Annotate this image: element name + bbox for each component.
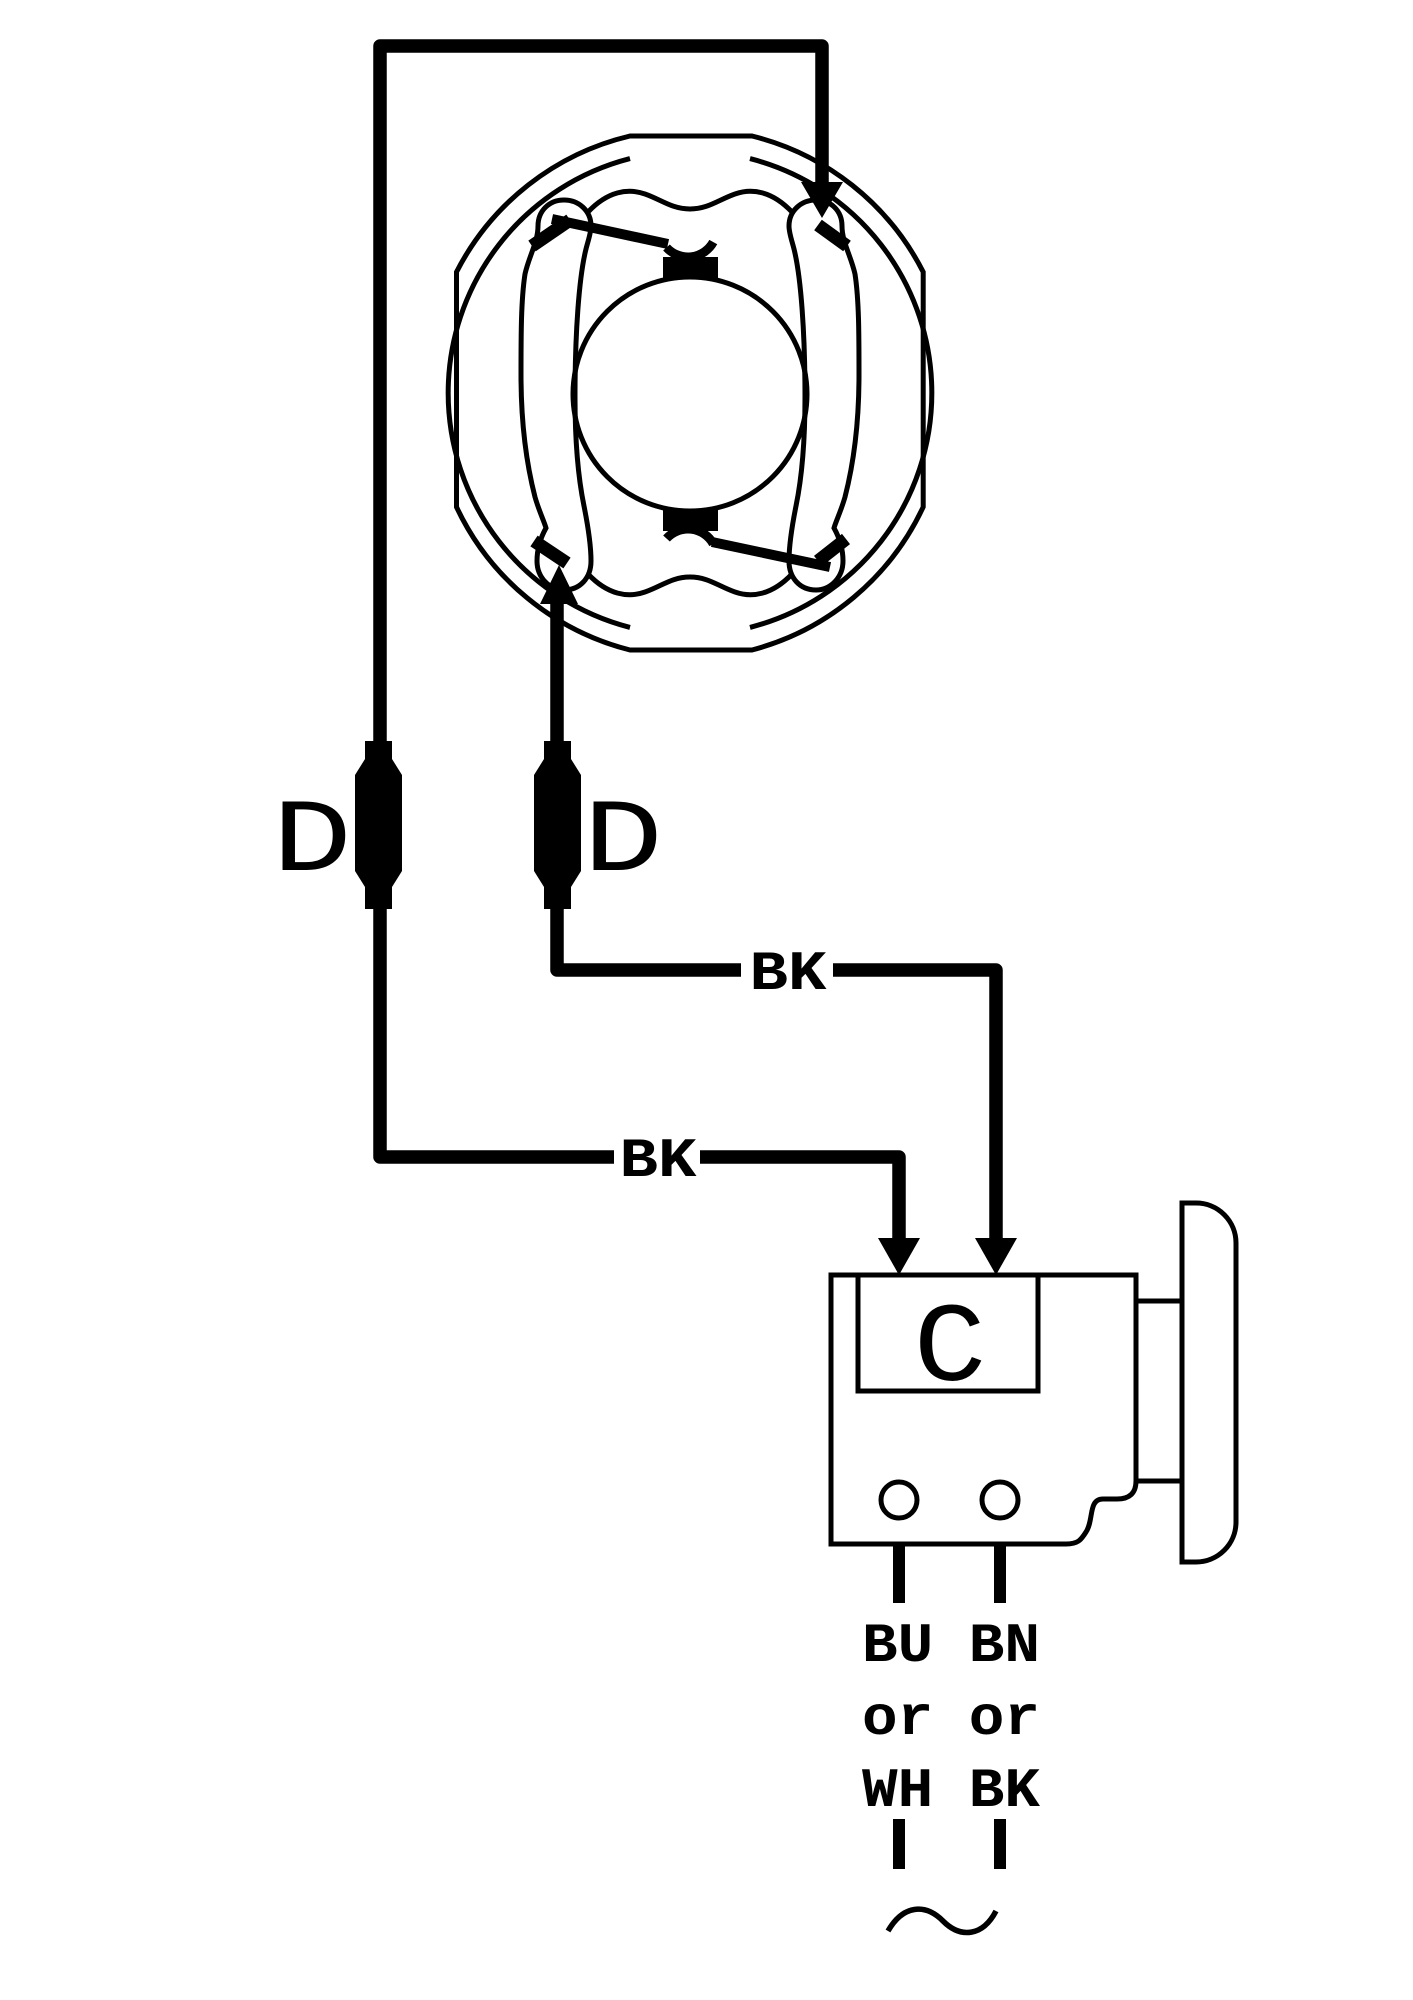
arrow into C unit (left) [878,1238,920,1275]
C unit: end cap boot [1182,1203,1236,1562]
motor: terminal slash bottom-left [534,541,567,563]
motor: brush spring top [667,242,714,257]
motor: brush spring bottom [667,529,714,544]
svg-text:D: D [583,784,663,902]
wire dash left [893,1819,905,1869]
suppressor D2 (right, in-line capsule) [534,741,581,909]
motor: terminal slash top-right [818,225,847,246]
motor: brush holder top [663,257,718,278]
motor: pole face wave top [588,191,792,212]
C unit: neck top line [1136,1299,1182,1304]
AC tilde symbol [888,1909,996,1932]
wire stub below C unit right [994,1545,1006,1603]
svg-text:WH BK: WH BK [862,1759,1040,1823]
motor: winding slot right (kidney, mirrored) [789,200,859,590]
motor: outer housing [457,136,924,650]
wire: top feed from left suppressor up and across to motor top-right terminal [380,46,822,1157]
svg-text:BK: BK [620,1129,697,1193]
svg-text:D: D [272,784,352,902]
svg-text:or or: or or [862,1687,1040,1751]
C unit: main body outline [831,1275,1136,1544]
motor: winding slot left (kidney) [521,200,591,590]
C unit: terminal block inner rect [858,1275,1038,1391]
wire stub below C unit left [893,1545,905,1603]
arrow into C unit (right) [975,1238,1017,1275]
motor: brush holder bottom [663,510,718,531]
motor: stator bore contour right [750,159,932,628]
motor: terminal slash bottom-right [818,539,846,561]
motor: pole face wave bottom [588,574,792,595]
arrow into motor top-right terminal [801,182,843,218]
motor: stator bore contour left [448,159,630,628]
motor: link wire top brush to top-left terminal [552,219,668,244]
motor: terminal slash top-left [532,220,570,246]
svg-text:BK: BK [750,942,827,1006]
wire: bottom BK run right of label toward C unit [700,1157,899,1240]
C unit: mounting hole left [881,1482,917,1518]
wire dash right [994,1819,1006,1869]
C unit: mounting hole right [982,1482,1018,1518]
wire: top BK run right of label toward C unit [833,970,996,1240]
suppressor D1 (left, in-line capsule) [355,741,402,909]
motor: link wire bottom brush to bottom-right terminal [712,542,830,567]
C unit: neck bottom line [1136,1479,1182,1484]
arrow into motor bottom-left terminal [540,565,578,604]
svg-text:C: C [914,1287,987,1414]
motor: rotor [573,277,807,511]
wire: from motor bottom-left terminal down through right suppressor to BK label [557,604,741,970]
svg-text:BU BN: BU BN [862,1614,1040,1678]
